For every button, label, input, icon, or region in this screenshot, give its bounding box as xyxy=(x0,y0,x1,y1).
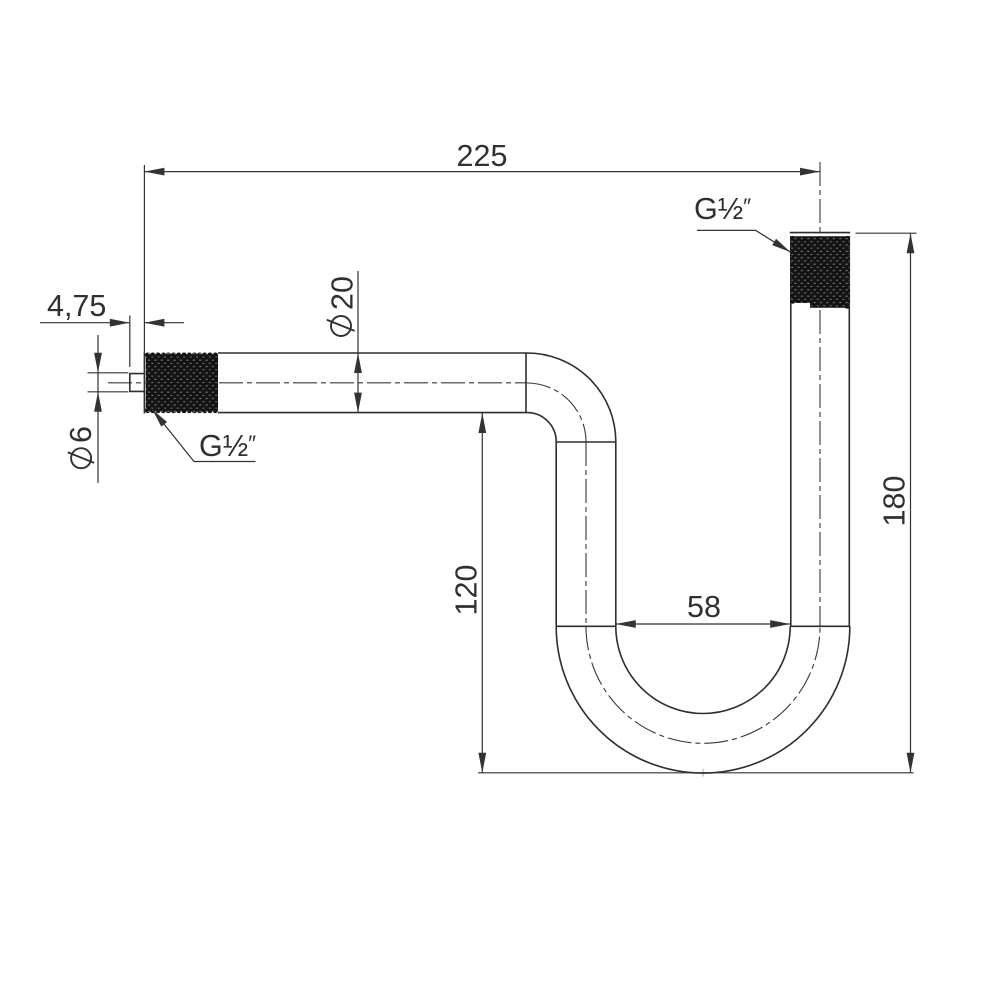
svg-text:G½″: G½″ xyxy=(199,429,256,463)
elbow outer arc xyxy=(526,353,616,442)
horizontal pipe top line xyxy=(218,352,526,354)
dim dia20 arrow down xyxy=(354,393,362,413)
dim dia6 arrow up xyxy=(94,392,102,412)
svg-text:6: 6 xyxy=(64,426,98,443)
leader line G1/2 right xyxy=(697,230,790,252)
elbow start tangent line xyxy=(525,353,527,413)
dim 120 line xyxy=(481,413,483,773)
dim 58 line xyxy=(616,623,790,625)
dim 225 arrow left xyxy=(144,168,164,176)
elbow inner arc xyxy=(526,413,556,442)
right pipe right line xyxy=(848,236,850,626)
U-bend outer arc xyxy=(556,626,850,773)
dim 4,75 line right part xyxy=(144,322,184,324)
dim dia20 line xyxy=(357,271,359,413)
dim 225 line xyxy=(144,171,820,173)
right thread top face line xyxy=(790,232,850,234)
U-bend inner arc xyxy=(616,626,790,713)
down pipe left line xyxy=(555,442,557,626)
right threaded section G1/2 xyxy=(786,232,854,312)
dim dia6 arrow down xyxy=(94,353,102,373)
dim 180 arrow up xyxy=(907,233,915,253)
dim 180 arrow down xyxy=(907,753,915,773)
left threaded section G1/2 xyxy=(140,348,222,418)
dim 4,75 extension line stub face xyxy=(129,316,131,368)
U-bend tangent line left pipe xyxy=(556,625,616,627)
dim 120 arrow up xyxy=(478,413,486,433)
dim 58 arrow right xyxy=(770,620,790,628)
leader line G1/2 left xyxy=(152,410,255,462)
left thread face line xyxy=(143,352,145,413)
down pipe right line xyxy=(615,442,617,626)
dia6 diameter symbol xyxy=(68,448,94,468)
leader arrow G1/2 left xyxy=(152,410,167,427)
dim 225 arrow right xyxy=(800,168,820,176)
dim 58 arrow left xyxy=(616,620,636,628)
dim dia6 extension line top xyxy=(88,372,129,374)
dim 4,75 line left part xyxy=(40,322,130,324)
dim 4,75 arrow left xyxy=(110,319,130,327)
dim 120 arrow down xyxy=(478,753,486,773)
bottom extension line (shared 120/180) xyxy=(478,772,914,774)
dia20 diameter symbol xyxy=(327,316,355,336)
dim 225 extension line left xyxy=(143,165,145,352)
centerline horizontal pipe xyxy=(108,382,527,384)
dim dia20 arrow up xyxy=(354,353,362,373)
centerline down pipe xyxy=(585,442,587,626)
right pipe left line xyxy=(790,236,792,626)
leader arrow G1/2 right xyxy=(772,239,790,252)
horizontal pipe bottom line xyxy=(218,412,526,414)
U-bend tangent line right pipe xyxy=(790,625,850,627)
svg-text:225: 225 xyxy=(457,139,508,173)
svg-text:4,75: 4,75 xyxy=(47,289,106,323)
centerline U-bend arc xyxy=(586,626,820,743)
dim dia6 extension line bottom xyxy=(88,391,129,393)
dim 4,75 arrow right xyxy=(144,319,164,327)
stub cylinder d6 xyxy=(130,374,145,392)
svg-text:20: 20 xyxy=(326,276,360,310)
svg-text:G½″: G½″ xyxy=(694,192,751,226)
dim dia6 line xyxy=(97,335,99,483)
centerline right pipe xyxy=(819,162,821,626)
elbow end tangent line xyxy=(556,441,616,443)
svg-text:120: 120 xyxy=(450,565,484,616)
svg-text:58: 58 xyxy=(687,590,721,624)
U-bend bottom tangent point mark xyxy=(699,769,707,777)
svg-text:180: 180 xyxy=(878,476,912,527)
centerline elbow arc xyxy=(527,383,586,442)
dim 180 extension line top xyxy=(856,232,917,234)
dim 180 line xyxy=(910,233,912,773)
